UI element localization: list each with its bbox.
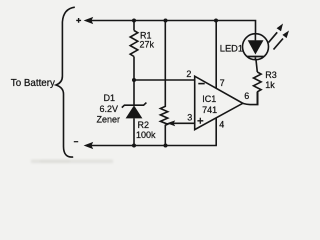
wire bottom rail bbox=[91, 145, 217, 147]
svg-text:3: 3 bbox=[187, 112, 192, 122]
resistor R1 bbox=[130, 21, 154, 81]
wire top rail bbox=[91, 21, 256, 35]
LED emission arrow upper bbox=[269, 32, 278, 42]
wire pin2 bbox=[134, 79, 195, 81]
plus terminal arrow bbox=[84, 17, 94, 24]
scan ghost smudge bbox=[31, 160, 113, 164]
node D1 junction bbox=[132, 78, 136, 82]
svg-text:6.2V: 6.2V bbox=[100, 104, 119, 114]
potentiometer R2 bbox=[136, 21, 168, 146]
node R2 bottom bbox=[164, 144, 168, 148]
pin 4 wire bbox=[215, 118, 217, 146]
plus terminal label bbox=[76, 18, 81, 23]
pin 6 wire bbox=[243, 91, 258, 105]
svg-text:100k: 100k bbox=[136, 130, 156, 140]
svg-text:741: 741 bbox=[202, 105, 217, 115]
wiper arrow bbox=[167, 120, 175, 126]
svg-text:2: 2 bbox=[186, 69, 191, 79]
svg-text:LED1: LED1 bbox=[220, 44, 243, 54]
battery brace bbox=[56, 7, 75, 157]
node R1 top bbox=[132, 19, 136, 23]
svg-text:27k: 27k bbox=[140, 39, 155, 49]
wire pin3 / wiper bbox=[174, 122, 195, 124]
op-amp IC1 bbox=[186, 21, 257, 146]
minus terminal arrow bbox=[84, 142, 94, 149]
plus input sign bbox=[197, 118, 203, 124]
minus terminal label bbox=[74, 141, 78, 143]
svg-text:To Battery: To Battery bbox=[11, 78, 55, 89]
LED1 bbox=[220, 24, 289, 60]
resistor R3 bbox=[253, 60, 276, 105]
node pin7 top bbox=[214, 19, 218, 23]
pin 7 wire bbox=[215, 21, 217, 89]
svg-text:Zener: Zener bbox=[97, 115, 121, 125]
svg-text:1k: 1k bbox=[265, 80, 275, 90]
svg-text:R3: R3 bbox=[265, 70, 277, 80]
LED emission arrow lower bbox=[274, 39, 284, 50]
node R2 top bbox=[164, 19, 168, 23]
svg-text:7: 7 bbox=[220, 78, 225, 88]
svg-text:IC1: IC1 bbox=[202, 94, 216, 104]
minus input sign bbox=[198, 83, 204, 85]
svg-text:D1: D1 bbox=[104, 93, 116, 103]
node D1 bottom bbox=[132, 144, 136, 148]
svg-text:4: 4 bbox=[219, 120, 224, 130]
zener D1 bbox=[97, 80, 147, 146]
svg-text:6: 6 bbox=[244, 91, 249, 101]
svg-text:R2: R2 bbox=[138, 120, 150, 130]
